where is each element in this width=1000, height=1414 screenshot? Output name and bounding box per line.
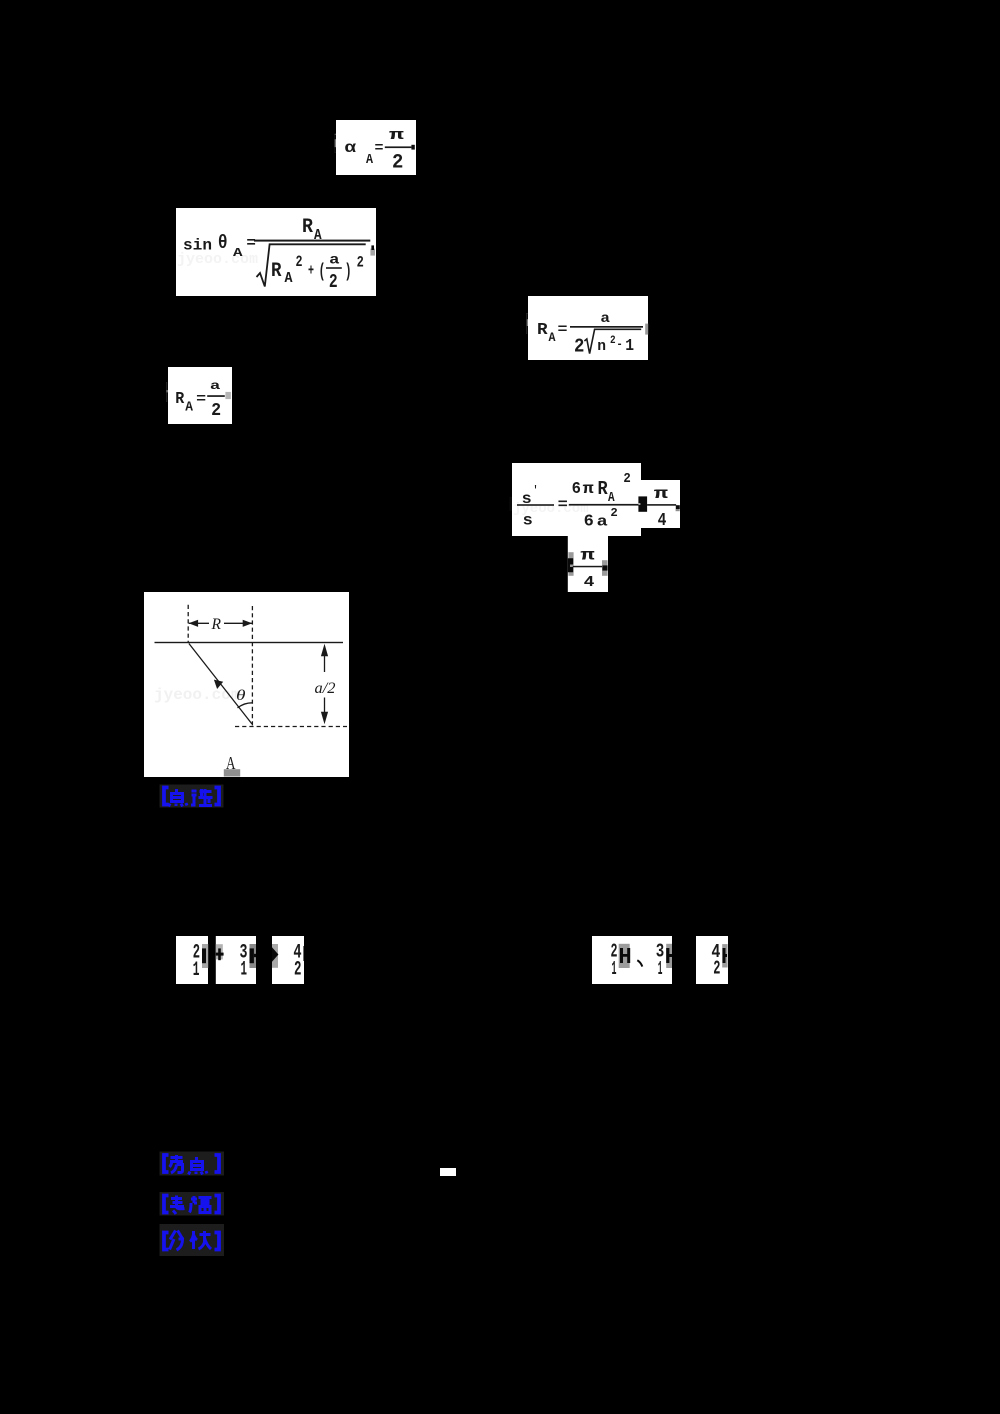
svg-text:a: a bbox=[210, 380, 221, 393]
svg-text:R: R bbox=[175, 390, 185, 409]
svg-text:2: 2 bbox=[610, 507, 618, 520]
svg-text:′: ′ bbox=[533, 485, 539, 497]
svg-text:R: R bbox=[211, 616, 222, 633]
svg-text:n: n bbox=[597, 338, 606, 355]
svg-text:=: = bbox=[375, 141, 384, 157]
svg-text:θ: θ bbox=[218, 232, 228, 254]
svg-text:A: A bbox=[366, 152, 373, 168]
svg-text:jyeoo.com: jyeoo.com bbox=[154, 686, 241, 704]
svg-text:1: 1 bbox=[625, 337, 634, 356]
svg-text:a/2: a/2 bbox=[315, 680, 336, 697]
svg-text:=: = bbox=[558, 497, 568, 514]
svg-text:6: 6 bbox=[584, 512, 594, 531]
svg-text:1: 1 bbox=[241, 959, 248, 982]
svg-text:θ: θ bbox=[236, 688, 246, 704]
svg-text:a: a bbox=[329, 252, 340, 268]
svg-text:π: π bbox=[654, 485, 669, 503]
svg-text:+: + bbox=[308, 262, 314, 280]
svg-text:2: 2 bbox=[211, 401, 221, 421]
svg-text:4: 4 bbox=[658, 511, 667, 531]
svg-text:π: π bbox=[389, 127, 404, 144]
svg-text:=: = bbox=[196, 392, 206, 408]
svg-text:sin: sin bbox=[183, 236, 212, 254]
svg-text:2: 2 bbox=[713, 957, 720, 979]
svg-text:2: 2 bbox=[294, 958, 302, 981]
svg-text:2: 2 bbox=[329, 271, 338, 293]
svg-text:2: 2 bbox=[623, 471, 630, 487]
svg-text:π: π bbox=[580, 546, 595, 564]
svg-text:α: α bbox=[345, 139, 357, 157]
svg-text:): ) bbox=[345, 261, 352, 283]
svg-text:4: 4 bbox=[584, 574, 595, 591]
svg-text:2: 2 bbox=[296, 253, 303, 271]
svg-text:1: 1 bbox=[193, 959, 200, 982]
svg-text:2: 2 bbox=[357, 253, 364, 271]
svg-text:s: s bbox=[523, 511, 533, 529]
svg-text:=: = bbox=[246, 235, 256, 252]
svg-text:R: R bbox=[537, 321, 548, 340]
svg-text:(: ( bbox=[319, 261, 326, 283]
svg-text:R: R bbox=[302, 216, 313, 239]
svg-text:A: A bbox=[185, 401, 194, 416]
svg-text:2: 2 bbox=[574, 336, 584, 358]
svg-text:a: a bbox=[600, 311, 610, 327]
svg-text:2: 2 bbox=[610, 335, 616, 347]
svg-text:1: 1 bbox=[612, 958, 617, 980]
svg-text:-: - bbox=[616, 338, 622, 352]
svg-text:a: a bbox=[597, 513, 608, 530]
svg-text:A: A bbox=[549, 331, 556, 345]
svg-text:R: R bbox=[598, 478, 609, 500]
svg-text:2: 2 bbox=[392, 152, 403, 175]
svg-text:=: = bbox=[558, 322, 568, 338]
svg-text:A: A bbox=[285, 270, 293, 287]
svg-text:A: A bbox=[233, 246, 244, 260]
svg-text:π: π bbox=[583, 480, 595, 498]
svg-text:1: 1 bbox=[658, 958, 663, 980]
svg-text:A: A bbox=[608, 491, 615, 506]
svg-text:R: R bbox=[271, 260, 282, 283]
svg-text:6: 6 bbox=[572, 480, 581, 499]
